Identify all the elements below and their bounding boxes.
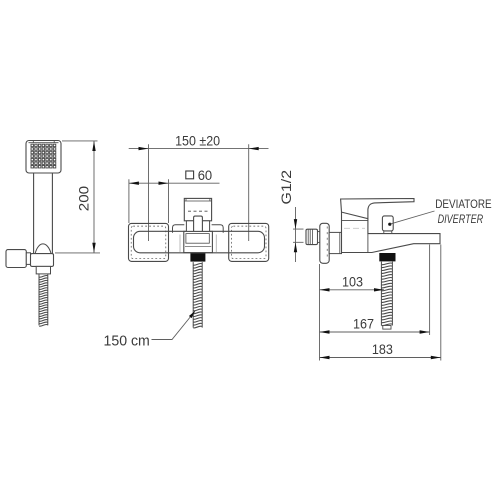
leader arrow: [189, 310, 197, 318]
hose connector (front, black): [190, 253, 205, 261]
bar fillet shading: [180, 235, 216, 253]
mixer body (side): [342, 212, 441, 252]
svg-text:183: 183: [372, 341, 393, 357]
dim 150 arrow right: [249, 147, 259, 150]
dim 150 pm 20 line: [129, 148, 269, 150]
svg-text:150 ±20: 150 ±20: [175, 134, 220, 149]
mixer handle (front): [184, 198, 211, 220]
body shading dashes: [344, 227, 365, 229]
left escutcheon plate: [129, 223, 169, 261]
handle neck band: [186, 221, 209, 233]
svg-text:150 cm: 150 cm: [104, 333, 150, 349]
dim 200 extension line top: [62, 140, 98, 142]
hose connector nut: [36, 266, 50, 274]
diverter knob (side): [382, 216, 393, 231]
bracket arm: [26, 253, 30, 265]
body top edge: [342, 219, 368, 221]
hand shower handle: [34, 173, 53, 254]
dim 60 arrow right: [159, 182, 169, 185]
hand shower hose coil: [39, 274, 48, 326]
wall bracket square: [6, 250, 26, 268]
shower hose (side view): [381, 262, 392, 326]
right escutcheon plate: [229, 223, 269, 261]
dim G1/2 ticks: [293, 229, 304, 242]
svg-text:DIVERTER: DIVERTER: [438, 214, 484, 226]
mixer body bar: [134, 231, 265, 253]
hose connector (side, black): [379, 253, 395, 261]
dim 60 extension lines: [129, 179, 169, 223]
diverter knob (front): [194, 216, 203, 232]
handle inlet cone: [35, 244, 51, 253]
hose end cap (side): [383, 326, 391, 330]
knob reference dot: [388, 223, 391, 226]
extension line spout tip 167: [429, 245, 431, 336]
body front edge lower: [367, 234, 369, 253]
dim 167 line: [320, 331, 430, 333]
extension line spout end 183: [440, 245, 442, 361]
svg-text:DEVIATORE: DEVIATORE: [435, 199, 492, 211]
handle holder block: [31, 254, 54, 267]
cartridge backplate shoulders: [173, 225, 224, 233]
leader line diverter: [391, 211, 435, 224]
dim G1/2 line: [295, 207, 297, 262]
escutcheon plate (side): [320, 223, 329, 263]
dim 60 arrow left: [129, 182, 139, 185]
spray nozzle grid: [31, 144, 56, 168]
svg-text:200: 200: [77, 186, 92, 211]
svg-text:103: 103: [342, 274, 363, 290]
dim 200 arrow down: [92, 243, 95, 253]
leader line 150 cm: [152, 311, 195, 339]
dim G1/2 arrow up: [294, 242, 297, 252]
dim 103 line: [320, 289, 385, 291]
body inlet block (side): [329, 232, 341, 253]
extension line wall (side dims): [319, 264, 321, 361]
threaded nipple G1/2: [306, 229, 318, 244]
dim 200 line: [93, 141, 95, 253]
dim 200 extension line bottom: [55, 252, 100, 254]
mixer center body (front): [184, 231, 213, 252]
dim 183 line: [320, 357, 441, 359]
svg-text:60: 60: [198, 168, 213, 183]
dim 200 arrow up: [92, 141, 95, 151]
dim 150 pm 20 extension lines: [149, 144, 249, 241]
nipple thread stub: [318, 232, 320, 243]
dim 150 arrow left: [139, 147, 149, 150]
svg-text:G1/2: G1/2: [279, 170, 294, 205]
label square 60: [186, 171, 194, 179]
svg-text:167: 167: [353, 316, 374, 332]
lever handle (side): [341, 199, 414, 219]
shower hose (front view): [193, 262, 202, 328]
hand shower head: [26, 141, 61, 174]
dim G1/2 arrow down: [294, 219, 297, 229]
dim 60 line: [129, 182, 220, 184]
